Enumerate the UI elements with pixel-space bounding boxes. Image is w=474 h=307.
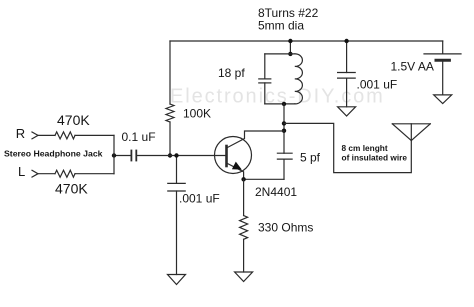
ground below C4 xyxy=(338,107,356,116)
wire R2 to junction xyxy=(75,173,114,175)
svg-text:18 pf: 18 pf xyxy=(218,66,245,80)
wire rail to tank xyxy=(289,41,291,54)
ground below battery xyxy=(434,95,452,104)
svg-text:Stereo Headphone Jack: Stereo Headphone Jack xyxy=(4,149,103,159)
node input junction xyxy=(112,153,116,157)
wire junction to C1 xyxy=(114,155,131,157)
svg-text:.001 uF: .001 uF xyxy=(179,192,220,206)
svg-text:0.1 uF: 0.1 uF xyxy=(122,130,156,144)
antenna feed wire xyxy=(284,123,411,172)
node tank bottom xyxy=(282,102,286,106)
svg-text:5 pf: 5 pf xyxy=(300,151,321,165)
svg-text:470K: 470K xyxy=(55,181,88,197)
transistor Q1 2N4401 xyxy=(215,131,285,179)
wire base xyxy=(136,155,226,157)
wire input right vertical xyxy=(113,135,115,173)
ground below C2 xyxy=(168,275,186,285)
capacitor C2 .001 uF xyxy=(168,156,185,275)
node tank top xyxy=(288,52,292,56)
svg-text:330 Ohms: 330 Ohms xyxy=(258,221,313,235)
inductor L1 8 turns xyxy=(295,54,303,104)
svg-text:R: R xyxy=(16,126,25,141)
capacitor C4 .001 uF xyxy=(338,41,356,107)
resistor R3 100K xyxy=(166,41,174,156)
svg-text:470K: 470K xyxy=(57,112,90,128)
svg-text:of insulated wire: of insulated wire xyxy=(342,153,408,163)
wire L input xyxy=(38,173,55,175)
wire R1 to junction xyxy=(75,134,114,136)
svg-text:100K: 100K xyxy=(183,107,211,121)
svg-text:8 cm lenght: 8 cm lenght xyxy=(342,143,388,153)
wire tank top xyxy=(265,53,295,55)
wire emitter to 5pf xyxy=(244,178,284,180)
node rail/.001uF tap xyxy=(344,39,348,43)
svg-text:1.5V AA: 1.5V AA xyxy=(391,60,434,74)
antenna ANT1 xyxy=(392,124,430,141)
capacitor C1 0.1 uF xyxy=(131,151,136,161)
svg-text:L: L xyxy=(18,164,25,179)
node collector tap xyxy=(282,129,286,133)
resistor R1 470K xyxy=(55,132,75,139)
input L arrow xyxy=(32,170,38,177)
node junction 100K/base xyxy=(168,153,172,157)
node emitter junction xyxy=(241,177,245,181)
wire R input xyxy=(38,134,55,136)
node antenna tap xyxy=(282,121,286,125)
node .001uF tap xyxy=(174,153,178,157)
svg-text:2N4401: 2N4401 xyxy=(255,185,297,199)
input R arrow xyxy=(32,132,38,139)
capacitor C5 5 pf xyxy=(277,153,292,179)
wire tank bottom to collector net xyxy=(283,104,285,153)
svg-text:.001 uF: .001 uF xyxy=(357,78,398,92)
resistor R2 470K xyxy=(55,170,75,177)
wire tank bottom xyxy=(265,103,295,105)
svg-text:5mm dia: 5mm dia xyxy=(258,19,304,33)
resistor R4 330 Ohms xyxy=(240,179,248,272)
battery B1 1.5V AA xyxy=(424,41,461,95)
ground below 330 Ohms xyxy=(235,272,253,282)
capacitor C3 18 pf xyxy=(259,54,271,104)
node rail/coil tap xyxy=(288,39,292,43)
wire top supply rail xyxy=(170,40,443,42)
